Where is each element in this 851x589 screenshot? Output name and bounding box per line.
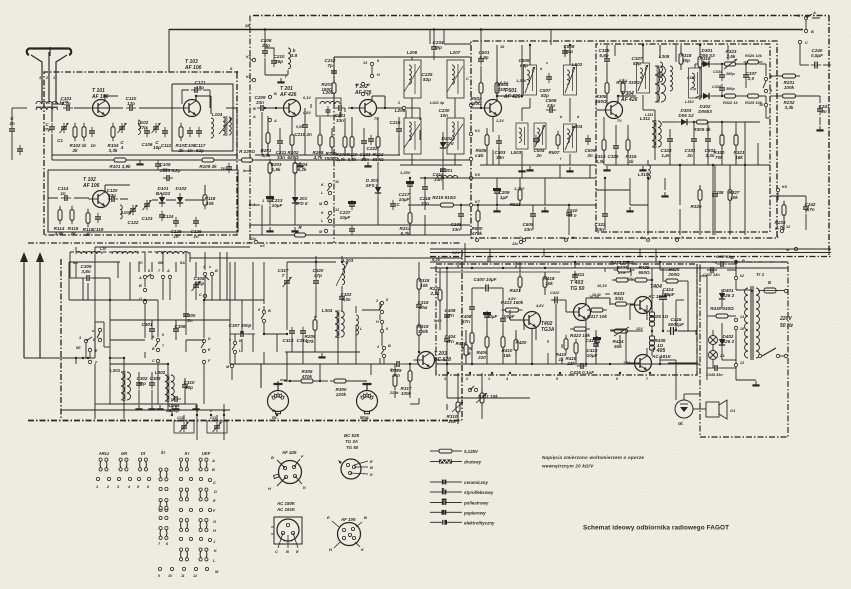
resistor R314 3,3k xyxy=(595,136,606,164)
resistor R313 220k xyxy=(389,368,399,395)
capacitor C108 xyxy=(185,127,196,153)
wire speaker xyxy=(660,360,706,409)
wire mixer out xyxy=(406,107,420,109)
wire trafo xyxy=(736,290,760,385)
frame: audio section vertical dash-dot x=462 xyxy=(461,250,463,420)
wire y=57 horizontal xyxy=(334,56,470,58)
label 9,2V xyxy=(432,257,441,262)
capacitor C509 xyxy=(585,135,596,158)
label C col2 xyxy=(199,293,207,298)
switch contact UKF row4 xyxy=(199,548,208,561)
resistor R101 3,9k xyxy=(109,158,131,169)
node 8 label xyxy=(230,66,238,73)
frame: right boundary dash-dot xyxy=(828,16,830,256)
transistor T202 AF426 xyxy=(356,100,377,117)
contact right H6 xyxy=(376,320,389,333)
wire: rail y=160 tuner bottom xyxy=(52,159,237,161)
wire IF mid xyxy=(500,151,590,165)
resistor R504 330 xyxy=(495,79,509,98)
wire am left verticals xyxy=(83,252,227,300)
capacitor C457 33n xyxy=(716,255,733,267)
label osc node xyxy=(429,101,445,105)
contact K-11 xyxy=(321,180,339,195)
resistor R425 650 xyxy=(631,265,651,282)
label T202 xyxy=(354,84,379,121)
terminal K8 xyxy=(776,185,787,192)
tuning gang C10 xyxy=(174,415,194,433)
diode D401 xyxy=(719,288,735,303)
capacitor C409 10uF xyxy=(483,311,498,321)
wire C301 C306 xyxy=(152,320,176,340)
diode D302 D0653 xyxy=(698,93,713,114)
lamp Z1a xyxy=(709,336,726,345)
wire T101 collector xyxy=(105,96,118,101)
capacitor C317 7p xyxy=(278,268,292,287)
switch matrix circle row C xyxy=(179,477,211,481)
svg-text:R416: R416 xyxy=(456,341,467,346)
coil L205 box xyxy=(316,90,341,116)
capacitor C331 2n xyxy=(685,135,697,158)
terminal K2 xyxy=(469,100,480,107)
capacitor C106 xyxy=(142,127,153,147)
capacitor C100 27p xyxy=(42,122,55,133)
wire: rail y=155 tuner xyxy=(52,154,237,156)
wire if bottom extra xyxy=(520,165,680,235)
if can L505b row2 xyxy=(534,123,546,149)
junction dots feeder xyxy=(104,28,701,109)
switch contact GR xyxy=(119,458,128,471)
title text xyxy=(583,525,729,532)
if can L503/L504a xyxy=(511,123,528,155)
label C225 xyxy=(422,72,433,82)
resistor R417 10k xyxy=(587,308,607,319)
resistor R505 1k xyxy=(476,131,489,158)
trim capacitor C2 xyxy=(152,123,162,150)
capacitor C511 33n xyxy=(595,210,608,232)
node K3 K4 terminals xyxy=(246,55,256,82)
contact mid F xyxy=(202,359,211,364)
resistor column right1 xyxy=(691,186,702,209)
resistor R435 1ohm xyxy=(650,336,666,350)
transformer L309 xyxy=(655,65,673,103)
transistor T102 AF106 xyxy=(89,191,110,208)
frame: T103 stage box xyxy=(172,84,233,151)
diode D203 xyxy=(366,178,382,197)
transformer L302b xyxy=(155,370,174,402)
resistor R419 1k xyxy=(556,335,568,362)
wire C309 xyxy=(70,252,110,300)
capacitor C212 7p xyxy=(325,58,337,77)
osc block L205 xyxy=(259,93,284,115)
legend capacitor styrofleksowy xyxy=(430,488,494,495)
coil L304b xyxy=(356,315,363,335)
svg-text:90p: 90p xyxy=(185,385,193,390)
capacitor C449 33n xyxy=(706,365,723,377)
capacitor C211 33n xyxy=(276,137,287,160)
wire: IF bottom rail y=205 xyxy=(408,204,596,206)
wire: vertical from feeder to tuner xyxy=(168,29,170,72)
switch matrix column headers xyxy=(98,450,211,456)
legend capacitor ceramiczny xyxy=(430,480,488,485)
resistor R114 3,9k xyxy=(54,206,65,236)
frame: IF strip outer dashed box xyxy=(471,41,777,238)
capacitor C307 300p xyxy=(229,323,252,337)
wire left edge xyxy=(12,108,27,160)
resistor column right3 xyxy=(728,186,740,205)
capacitor C506 24p xyxy=(546,98,557,113)
wire psu top xyxy=(735,264,737,290)
label 1,25V IF xyxy=(400,170,411,175)
wire: supply rail y=252 xyxy=(190,253,831,259)
switch contact Sr row2 xyxy=(159,499,168,512)
resistor R316 1k xyxy=(626,136,637,164)
resistor R428 200 xyxy=(662,267,682,283)
terminal K1 xyxy=(469,129,480,136)
resistor R320 70k xyxy=(714,131,725,160)
resistor R210 3,3k xyxy=(347,133,358,162)
wire lower rails xyxy=(95,300,264,358)
terminal 3oD xyxy=(79,336,96,343)
capacitor C417 column xyxy=(586,338,599,350)
switch contact UKF row3 xyxy=(199,519,208,532)
contact S-K xyxy=(229,338,242,354)
wire left dense xyxy=(76,252,224,415)
capacitor C329 47n xyxy=(391,361,404,378)
coil L105 xyxy=(120,205,132,219)
capacitor C240 0,5uF xyxy=(811,48,823,69)
capacitor C209 33n xyxy=(252,95,267,119)
capacitor C404 47n xyxy=(444,334,456,345)
capacitor C408 47n xyxy=(461,303,475,324)
if can L504 xyxy=(564,124,583,152)
label T404 xyxy=(627,277,668,299)
capacitor C117 51p xyxy=(195,127,206,153)
capacitor C328 1,6n xyxy=(661,135,673,158)
wire to right edge xyxy=(766,107,770,118)
label T402 xyxy=(535,304,555,333)
capacitor C303 xyxy=(149,376,161,389)
label L208 xyxy=(395,108,406,113)
ground tuner mid xyxy=(136,160,143,164)
switch contact Kr row1 xyxy=(180,458,189,471)
capacitor C241 2n xyxy=(817,104,830,115)
capacitor C416 0,1uF xyxy=(570,363,594,375)
diode D202 SFD2 xyxy=(440,136,454,152)
contact A s B xyxy=(202,265,218,280)
capacitor C216 180p xyxy=(390,120,402,135)
frame: top boundary dash-dot xyxy=(253,15,829,17)
ferrite coil 1 xyxy=(73,251,102,265)
wire mid col drops xyxy=(344,118,346,155)
wire audio stage2 xyxy=(586,268,697,362)
terminal 3 2 4 xyxy=(196,409,226,416)
terminal strip IF bottom xyxy=(469,236,684,242)
frame: bottom-left dash-dot y=419 xyxy=(28,420,462,422)
capacitor C406 47n xyxy=(444,308,456,321)
contact A6 xyxy=(138,269,154,280)
socket diagram BC528 xyxy=(338,433,374,479)
wire audio internal xyxy=(532,270,696,364)
label 18 node xyxy=(500,45,505,49)
wire top mid extra xyxy=(399,29,430,140)
capacitor C504 2n xyxy=(533,135,545,158)
ground IF bottom xyxy=(493,207,548,211)
resistor R418 10k xyxy=(543,273,555,292)
capacitor C215 xyxy=(349,225,355,235)
resistor R426 1ohm xyxy=(650,312,669,326)
wire audio bottom rail xyxy=(436,363,700,365)
if can C333 47p xyxy=(685,68,702,104)
wire IF bottom drops xyxy=(410,165,713,235)
capacitor C234 10p xyxy=(431,40,444,53)
pot R310 10k xyxy=(447,398,463,424)
contact 6-B xyxy=(258,308,271,323)
coil L303 xyxy=(336,258,354,286)
wire osc bus xyxy=(48,198,176,200)
resistor R317 100k xyxy=(401,367,412,396)
ferrite coil 2 xyxy=(112,251,143,265)
capacitor C507 82p xyxy=(540,73,552,98)
switch contact Sr row3 xyxy=(159,527,168,540)
resistor R421 330 xyxy=(510,273,522,293)
switch contact Kr row3 xyxy=(180,519,189,532)
resistor R116 2k xyxy=(83,209,94,237)
switch matrix terminals 1-6 xyxy=(96,477,151,489)
terminal K6 xyxy=(469,173,480,180)
label T403 xyxy=(570,280,599,299)
wire socket net xyxy=(278,364,395,398)
ground IF cans xyxy=(526,166,646,170)
label 13 node xyxy=(734,361,744,367)
svg-text:10,3V: 10,3V xyxy=(597,284,607,288)
antenna dipole xyxy=(27,49,71,101)
resistor R309 1k xyxy=(693,120,712,132)
transistor T403 TG50 xyxy=(570,304,591,321)
trim capacitor C1 xyxy=(57,123,68,143)
switch contact ARcz xyxy=(99,458,108,471)
label C226 xyxy=(466,77,469,81)
wire osc out xyxy=(185,185,205,200)
pot R311 10k xyxy=(476,389,498,407)
capacitor C413 wire xyxy=(555,304,557,364)
wire rail drop xyxy=(444,29,471,262)
socket diagram AC180K xyxy=(271,501,302,554)
socket diagram AF106 xyxy=(327,515,367,552)
node contacts 11-B xyxy=(355,82,370,97)
wire T201 base xyxy=(266,107,283,109)
resistor R410 15k xyxy=(501,333,513,358)
label 220V xyxy=(779,316,794,329)
resistor R423 27k xyxy=(612,265,632,282)
capacitor C314 xyxy=(297,327,308,343)
resistor R307 330 xyxy=(616,79,640,98)
switch contact Kr row4 xyxy=(180,548,189,561)
capacitor C301 group xyxy=(142,322,155,335)
resistor R319 100k xyxy=(417,321,429,340)
contact mid B7 xyxy=(152,344,165,352)
wire mid contacts xyxy=(158,300,204,404)
capacitor C229 1uF xyxy=(493,187,510,200)
frame: vertical divider x=250 xyxy=(249,16,251,244)
capacitor C219 2n xyxy=(294,121,312,137)
capacitor C413 10uF xyxy=(587,336,601,358)
frame: IF strip inner dashed box xyxy=(596,44,770,232)
capacitor C222 33n xyxy=(367,135,378,151)
switch matrix letters xyxy=(211,458,219,574)
resistor R202 620 xyxy=(287,131,299,160)
switch matrix circle row F xyxy=(159,506,212,511)
node contacts 13-H xyxy=(363,59,380,78)
wire audio out xyxy=(668,362,697,364)
label L xyxy=(321,191,324,195)
capacitor C337 2n xyxy=(743,71,757,81)
label 4,8V xyxy=(507,297,516,301)
legend capacitor elektrolityczny xyxy=(430,520,495,525)
capacitor C306 group xyxy=(173,324,186,335)
label T101 xyxy=(91,88,109,100)
diode D101 BA102 xyxy=(156,186,171,207)
wire: rail y=262 audio xyxy=(430,261,788,263)
frame: T102 inner box xyxy=(48,170,238,232)
ground am row xyxy=(148,405,199,409)
if can L502 xyxy=(564,62,583,95)
wire T202 collector xyxy=(372,96,402,108)
resistor R318 60 xyxy=(679,50,692,69)
node 2 to IF xyxy=(397,101,406,110)
trim capacitor C123 xyxy=(142,200,153,221)
resistor R415b 750 xyxy=(610,260,634,272)
resistor R415 22k xyxy=(566,339,578,366)
resistor R204 6,2k xyxy=(293,159,308,178)
terminal 8L xyxy=(272,409,278,416)
capacitor C126 1n xyxy=(191,217,202,239)
wire am verticals2 xyxy=(280,364,419,404)
transistor T201 AF426 xyxy=(280,100,301,117)
wire T102 base xyxy=(74,197,89,199)
wire D202 xyxy=(442,132,444,190)
wire left col x69 xyxy=(69,262,120,300)
wire T102 collector xyxy=(105,185,130,192)
socket Mag. xyxy=(357,384,378,420)
resistor R510 top xyxy=(698,53,711,72)
trim capacitor C105 xyxy=(118,123,127,150)
capacitor C304 300p xyxy=(169,396,182,413)
mains switch xyxy=(758,348,784,358)
resistor R511 xyxy=(510,186,522,207)
label C230 xyxy=(439,108,450,118)
ferrite coil 3 xyxy=(157,251,173,265)
antenna dipole detail xyxy=(49,47,51,56)
contact mid A6 xyxy=(151,333,164,347)
transformer L301 xyxy=(110,368,131,401)
label T201 xyxy=(279,86,311,115)
fuse B xyxy=(764,280,776,293)
resistor R231 100k xyxy=(779,74,800,90)
capacitor C414 100uF xyxy=(659,287,675,303)
wire audio stage xyxy=(435,268,610,398)
capacitor C242 4,7n xyxy=(803,202,816,213)
wire am left horizontals xyxy=(61,300,230,410)
wire gang xyxy=(184,415,224,440)
wire AFC net xyxy=(681,45,766,103)
wire T101 base xyxy=(74,107,89,109)
capacitor C210 36p xyxy=(271,54,285,67)
transistor T103 AF106 xyxy=(180,100,201,117)
resistor R208 47k xyxy=(305,316,317,344)
wire mid drops xyxy=(232,256,382,380)
capacitor C101 8,2p xyxy=(61,96,74,111)
capacitor C335 6,8p xyxy=(599,48,610,65)
node B contact xyxy=(268,92,277,99)
wire converter underparts xyxy=(255,116,470,166)
transformer Tr1 primary xyxy=(745,272,765,360)
resistor R206 1500 xyxy=(324,133,338,161)
switch matrix 7 8 terminals xyxy=(158,542,169,546)
capacitor C131 xyxy=(17,145,23,155)
resistor R115 2k xyxy=(68,206,79,236)
label 2B xyxy=(244,23,250,28)
wire am if out xyxy=(362,302,380,310)
diode D301 D06S3 xyxy=(699,48,715,67)
capacitor C121 18p xyxy=(191,80,206,93)
junction dots am xyxy=(109,261,420,365)
resistor R321 18k xyxy=(734,131,745,160)
switch contact UKF row1 xyxy=(199,458,208,471)
wire T202 base xyxy=(348,107,359,109)
frame: audio block dashed box xyxy=(436,264,697,375)
resistor R205 row xyxy=(291,225,310,237)
terminal 2-A xyxy=(797,10,820,20)
terminal B xyxy=(804,20,814,34)
wire osc coupling xyxy=(265,29,288,75)
label antenna pins xyxy=(39,76,55,80)
switch matrix terminals 9-12 xyxy=(158,567,209,578)
capacitor C316 10n xyxy=(416,300,429,311)
capacitor C120 43p xyxy=(107,188,119,202)
resistor R507 row xyxy=(549,131,560,155)
wire C121 loop xyxy=(182,90,210,108)
coil L102 xyxy=(138,120,149,134)
resistor R430 240 xyxy=(710,306,734,318)
svg-text:L302: L302 xyxy=(155,370,166,375)
transistor T402 TG3A xyxy=(520,312,541,329)
resistor R324 10k xyxy=(744,53,763,64)
ground L201 xyxy=(277,78,284,82)
capacitor C300 2n xyxy=(183,310,196,323)
ground IF1 xyxy=(518,167,573,171)
resistor R433 30 xyxy=(612,291,631,306)
coil L310 xyxy=(638,165,651,179)
switch matrix circle row J xyxy=(179,537,211,541)
terminal mains1 xyxy=(758,289,788,292)
capacitor C437 33n xyxy=(703,267,720,277)
resistor R600 470k xyxy=(471,207,483,236)
terminal K7 xyxy=(469,200,480,207)
capacitor C309 3,8n xyxy=(81,264,94,281)
capacitor C118 xyxy=(220,163,232,173)
resistor R109 2k xyxy=(198,158,218,169)
contact M2 xyxy=(319,229,328,234)
wire row1 bus xyxy=(92,107,180,109)
label 0,8V xyxy=(296,125,304,129)
contact M3 xyxy=(226,364,234,369)
label 10,3V xyxy=(597,284,607,288)
capacitor C124 xyxy=(159,211,174,221)
coil L104 xyxy=(211,112,223,138)
resistor R107 2k xyxy=(176,123,187,153)
wire right col xyxy=(384,262,419,398)
antenna rod left2 xyxy=(36,252,44,358)
